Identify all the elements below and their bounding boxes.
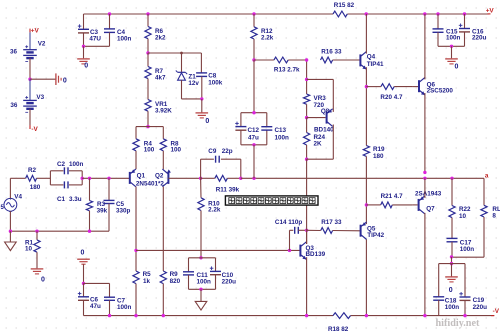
wire C10/C11 box top: [189, 257, 216, 259]
svg-text:0: 0: [84, 63, 88, 70]
svg-text:R9: R9: [170, 271, 179, 278]
svg-text:47u: 47u: [248, 135, 259, 142]
wire V3 top lead: [29, 79, 31, 100]
capacitor C15 100n: [433, 29, 461, 42]
wire R8 to Q2 emitter: [162, 151, 164, 169]
transistor Q7 2SA1943: [412, 191, 441, 214]
node feedback / Q2 base: [199, 177, 202, 180]
wire V2 bottom lead: [29, 58, 31, 79]
node junction top rail / C16: [463, 12, 466, 15]
svg-text:330p: 330p: [116, 207, 131, 214]
svg-text:TIP42: TIP42: [367, 232, 384, 239]
svg-text:R16 33: R16 33: [321, 48, 342, 55]
svg-text:100n: 100n: [117, 304, 132, 311]
wire C7 bottom lead: [109, 300, 111, 315]
wire R3 top lead: [89, 178, 91, 200]
wire R4 top lead: [135, 127, 137, 139]
wire C15 top lead: [437, 14, 439, 29]
resistor R6 2k2: [145, 27, 166, 42]
svg-text:0: 0: [449, 287, 453, 294]
node C10/C11 bottom: [199, 288, 202, 291]
wire ground stem C6C7: [83, 264, 85, 283]
wire C11 bottom lead: [188, 275, 190, 289]
wire R8 top lead: [162, 127, 164, 139]
wire Q6 emitter: [424, 93, 426, 172]
transistor Q6 2SC5200: [413, 77, 453, 95]
capacitor C17 100n: [447, 238, 475, 252]
wire C14 drop: [289, 230, 291, 250]
wire C5 top lead: [108, 178, 110, 200]
resistor R1 10: [25, 239, 40, 252]
wire Vbe bottom to VAS: [306, 159, 308, 244]
svg-text:36: 36: [10, 48, 18, 55]
capacitor C18 100n: [433, 297, 459, 311]
svg-text:100n: 100n: [445, 304, 460, 311]
wire C10 top lead: [215, 258, 217, 272]
svg-text:100n: 100n: [197, 278, 212, 285]
svg-text:220u: 220u: [473, 304, 488, 311]
wire bootstrap to output rail: [253, 145, 255, 179]
capacitor C16 220u: [459, 24, 487, 42]
wire C11 top lead: [188, 258, 190, 272]
node -V C7: [108, 314, 111, 317]
resistor R4 100: [133, 139, 155, 154]
capacitor C9 22p: [201, 148, 241, 178]
svg-text:2k2: 2k2: [155, 34, 166, 41]
wire Q3 collector riser: [306, 230, 308, 244]
wire Q2 collector: [162, 187, 164, 271]
wire -V rail left of R18: [84, 315, 334, 317]
node R3 bottom: [88, 230, 91, 233]
node C15/C16 ground: [450, 45, 453, 48]
svg-text:R5: R5: [143, 271, 152, 278]
svg-text:Q4: Q4: [367, 54, 376, 61]
wire C8 top lead: [200, 53, 202, 73]
node zener top: [180, 52, 183, 55]
wire VAS rail: [136, 249, 300, 251]
node Q8 base: [305, 116, 308, 119]
node R22 tap: [450, 177, 453, 180]
resistor R22 10: [449, 206, 471, 220]
resistor VR3 720: [304, 94, 327, 109]
wire C10/C11 box bottom: [189, 288, 216, 290]
svg-text:R15 82: R15 82: [334, 2, 355, 9]
wire Vbe string: [306, 60, 308, 94]
svg-text:Q1: Q1: [137, 173, 146, 180]
transistor Q2 2N5401: [136, 169, 171, 187]
svg-text:C9: C9: [208, 148, 217, 155]
wire VR1 bottom lead: [147, 111, 149, 126]
wire C18/C19 box top: [439, 263, 465, 265]
wire V3 bottom lead: [29, 109, 31, 126]
svg-text:180: 180: [30, 184, 41, 191]
svg-text:2SC5200: 2SC5200: [427, 88, 454, 95]
node input network output: [81, 177, 84, 180]
node R11/C9 right: [239, 177, 242, 180]
resistor R15: [333, 2, 355, 17]
wire C4 top lead: [109, 14, 111, 29]
wire Q7 emitter: [424, 178, 426, 198]
svg-text:R17 33: R17 33: [321, 219, 342, 226]
svg-text:+V: +V: [31, 28, 40, 35]
capacitor C3 47u: [78, 24, 102, 42]
resistor R5 1k: [133, 271, 151, 285]
wire R1 top lead: [36, 231, 38, 240]
wire C3/C4 bottom join: [84, 45, 110, 47]
node junction top rail / Q4 collector: [365, 12, 368, 15]
node bootstrap bottom: [252, 143, 255, 146]
svg-text:180: 180: [373, 153, 384, 160]
wire V4 up to input: [9, 178, 11, 198]
node junction top rail / R6: [146, 12, 149, 15]
node output upper: [423, 171, 426, 174]
svg-text:0: 0: [455, 63, 459, 70]
ground 0 under C3/C4: [77, 59, 90, 70]
resistor R13 2.7k: [254, 57, 307, 73]
wire C12/C13 riser: [253, 60, 255, 113]
node Q1 collector / VAS rail: [134, 249, 137, 252]
node R10 bottom: [199, 256, 202, 259]
svg-text:47u: 47u: [90, 303, 101, 310]
svg-text:220u: 220u: [222, 278, 237, 285]
wire C18 top lead: [438, 264, 440, 297]
node -V Q7 collector: [423, 314, 426, 317]
svg-text:8: 8: [492, 212, 496, 219]
wire R5 bottom lead: [135, 284, 137, 316]
wire Vbe box bottom: [307, 158, 334, 160]
wire tail rail: [136, 126, 163, 128]
watermark hifidiy.net: [436, 318, 480, 329]
svg-text:a: a: [485, 172, 489, 179]
node C14 tap: [288, 249, 291, 252]
wire V4 to ground triangle: [9, 231, 11, 242]
power port +V (right): [486, 8, 495, 15]
zener Z1 12v: [176, 71, 200, 88]
wire C19 top lead: [464, 264, 466, 297]
svg-text:C14 110p: C14 110p: [275, 219, 302, 226]
wire C6/C7 box top: [84, 282, 110, 284]
transistor Q1 2N5401: [130, 169, 146, 187]
node R13/R16 junction: [305, 58, 308, 61]
svg-text:22p: 22p: [222, 148, 233, 155]
svg-text:4k7: 4k7: [155, 74, 166, 81]
wire R6 top lead: [147, 14, 149, 27]
wire VR3 to base node: [306, 104, 308, 117]
wire +V top rail right of R15: [347, 13, 489, 15]
wire ground spur: [30, 78, 56, 80]
node battery midpoint: [28, 78, 31, 81]
svg-text:-V: -V: [31, 126, 38, 133]
wire ground stem C3C4: [83, 46, 85, 58]
ground 0 under R1: [31, 269, 45, 284]
node Vbe bottom: [305, 158, 308, 161]
svg-text:Q2: Q2: [155, 173, 164, 180]
wire C6 bottom lead: [83, 300, 85, 315]
capacitor C8 100k: [196, 73, 223, 87]
node zener ground junction: [200, 97, 203, 100]
resistor R16 33: [321, 48, 360, 63]
svg-text:R21 4.7: R21 4.7: [381, 193, 404, 200]
svg-text:10: 10: [459, 213, 467, 220]
svg-text:0: 0: [63, 77, 67, 84]
svg-text:220u: 220u: [472, 35, 487, 42]
wire C15/C16 bottom join: [438, 45, 465, 47]
node output: [423, 177, 426, 180]
ground 0 beside battery: [56, 73, 67, 85]
resistor R20 4.7: [366, 84, 413, 101]
capacitor C1 3.3u parallel box bottom: [50, 171, 82, 203]
svg-text:2.2k: 2.2k: [261, 35, 274, 42]
wire V2 top lead: [29, 32, 31, 49]
wire R6 to zener/C8: [148, 52, 201, 54]
wire output rail: [241, 177, 484, 179]
svg-text:2K: 2K: [314, 140, 323, 147]
svg-text:12v: 12v: [188, 80, 199, 87]
transistor Q8 BD140: [307, 108, 334, 134]
resistor R24 2K: [304, 133, 326, 148]
svg-text:V3: V3: [36, 94, 44, 101]
transistor Q3 BD139: [300, 242, 325, 260]
svg-text:100n: 100n: [117, 36, 132, 43]
svg-text:V4: V4: [14, 193, 22, 200]
node C3 bottom junction: [82, 45, 85, 48]
wire R24 top lead: [306, 118, 308, 133]
node junction top rail / C4: [108, 12, 111, 15]
ground triangle under V4: [5, 242, 17, 251]
node R6/R7/zener junction: [146, 51, 149, 54]
ground 0 under zener: [196, 113, 210, 125]
port a label: [485, 172, 489, 179]
node R12/R13 junction: [252, 58, 255, 61]
node Q5 emitter / R21: [365, 203, 368, 206]
node junction top rail / Q6 collector: [423, 12, 426, 15]
wire RL bottom lead: [483, 217, 485, 257]
node bootstrap bottom tap: [252, 177, 255, 180]
power port -V (battery stack): [30, 125, 39, 133]
wire C7 top lead: [109, 283, 111, 297]
resistor R8 100: [160, 139, 181, 154]
wire Q3 emitter: [306, 257, 308, 315]
wire C5 bottom lead: [108, 204, 110, 232]
resistor VR1 3.92K: [145, 100, 172, 115]
svg-text:C1: C1: [57, 196, 66, 203]
wire R7-VR1 link: [147, 79, 149, 100]
wire Q7 collector: [424, 213, 426, 316]
ground 0 under C15/C16: [445, 59, 458, 71]
svg-text:R20 4.7: R20 4.7: [380, 94, 403, 101]
svg-text:C13: C13: [275, 127, 287, 134]
node junction top rail / R12: [252, 12, 255, 15]
wire Z1/C8 bottom join: [182, 98, 202, 100]
capacitor C5 330p: [104, 200, 131, 214]
ground triangle under C10/C11: [195, 301, 207, 310]
wire input to R2: [10, 177, 25, 179]
svg-text:100n: 100n: [275, 135, 290, 142]
svg-text:C2: C2: [57, 161, 66, 168]
wire C3 top lead: [83, 14, 85, 29]
wire R7 top lead: [147, 53, 149, 67]
svg-text:3.3u: 3.3u: [69, 196, 82, 203]
battery V2 36V: [10, 41, 46, 62]
resistor R12 2.2k: [251, 27, 274, 42]
node -V R9: [162, 314, 165, 317]
capacitor C12 47u box: [235, 113, 267, 145]
capacitor C2 100n parallel box top: [50, 161, 83, 185]
wire ground stem output: [451, 264, 453, 277]
wire C18 bottom lead: [438, 300, 440, 315]
svg-text:47U: 47U: [89, 36, 101, 43]
wire C16 top lead: [464, 14, 466, 29]
wire R10 bottom lead: [200, 211, 202, 258]
wire Vbe box top: [307, 78, 334, 80]
node -V R5: [134, 314, 137, 317]
wire Q6 collector: [424, 14, 426, 79]
wire R2 to C1/C2: [37, 177, 51, 179]
wire -V rail right of R18: [351, 315, 495, 317]
node bootstrap top: [252, 111, 255, 114]
svg-text:V2: V2: [38, 41, 46, 48]
wire Q5 collector: [365, 240, 367, 316]
svg-text:R13 2.7k: R13 2.7k: [274, 66, 300, 73]
transistor Q4 TIP41: [360, 52, 384, 70]
battery V3 36V: [10, 94, 44, 113]
tooltip overlay (hold left button to select capture region): [225, 196, 318, 205]
node diff pair tail: [146, 125, 149, 128]
svg-text:100: 100: [171, 147, 182, 154]
resistor R11 39k: [201, 175, 241, 193]
ground 0 above C6/C7: [77, 249, 90, 264]
svg-text:0: 0: [81, 249, 85, 256]
svg-text:100n: 100n: [69, 161, 84, 168]
wire R24 bottom lead: [306, 145, 308, 159]
svg-text:820: 820: [170, 278, 181, 285]
transistor Q5 TIP42: [361, 222, 385, 240]
capacitor C19 220u: [459, 292, 487, 311]
wire input ground rail: [10, 230, 109, 232]
wire Q2 base to feedback: [168, 177, 200, 179]
wire Q4 emitter chain: [365, 67, 367, 145]
wire +V top rail left of R15: [84, 13, 334, 15]
svg-text:R18 82: R18 82: [328, 326, 349, 333]
node -V Q3 emitter: [305, 314, 308, 317]
wire ground stem C15C16: [451, 46, 453, 58]
svg-text:100k: 100k: [208, 79, 223, 86]
wire R4 to Q1 emitter: [135, 151, 137, 169]
svg-text:TIP41: TIP41: [367, 61, 384, 68]
resistor R9 820: [160, 271, 180, 285]
node Q4 emitter / R20: [365, 85, 368, 88]
wire R9 bottom lead: [162, 284, 164, 316]
svg-text:100: 100: [144, 147, 155, 154]
capacitor C4 100n: [104, 29, 132, 43]
svg-text:39k: 39k: [97, 207, 108, 214]
svg-text:Q8: Q8: [321, 108, 330, 115]
svg-text:0: 0: [205, 118, 209, 125]
capacitor C6 47u: [78, 292, 101, 310]
node R3 tap: [88, 177, 91, 180]
wire C8 bottom lead: [201, 76, 203, 99]
wire R1 bottom lead: [36, 252, 38, 268]
node -V Q5 collector: [365, 314, 368, 317]
svg-text:0: 0: [41, 277, 45, 284]
wire to C18/C19 box: [451, 257, 453, 264]
wire Q4 collector: [365, 14, 367, 54]
resistor R18 82: [328, 313, 351, 333]
wire ground triangle stem: [200, 289, 202, 301]
svg-text:BD139: BD139: [306, 251, 326, 258]
wire V4 bottom lead: [9, 211, 11, 231]
wire R22 top lead: [451, 178, 453, 205]
node V4 low: [9, 230, 12, 233]
wire C3 bottom lead: [83, 33, 85, 46]
wire C17 bottom lead: [451, 242, 453, 257]
wire Vbe box right: [332, 79, 334, 112]
capacitor C13 100n box: [241, 113, 289, 145]
svg-text:2SA1943: 2SA1943: [415, 191, 442, 198]
wire output rail drop: [483, 178, 485, 205]
svg-text:Q7: Q7: [426, 206, 435, 213]
svg-text:2N5401*2: 2N5401*2: [136, 180, 165, 187]
svg-text:2.2k: 2.2k: [208, 207, 221, 214]
source V4 sine: [1, 193, 23, 211]
svg-text:C12: C12: [248, 127, 260, 134]
wire R3 bottom lead: [89, 211, 91, 231]
node C6/C7 top: [82, 282, 85, 285]
wire C6 top lead: [83, 283, 85, 296]
node C5 tap: [107, 177, 110, 180]
power port -V (right): [491, 308, 500, 315]
wire Q1 collector: [135, 187, 137, 271]
resistor R2 180: [26, 167, 41, 191]
wire R19 to Q5: [365, 156, 367, 224]
svg-text:10: 10: [25, 246, 33, 253]
wire R10 top lead: [200, 178, 202, 198]
svg-text:3.92K: 3.92K: [155, 108, 172, 115]
svg-text:100n: 100n: [460, 246, 475, 253]
wire Q8 collector drop: [332, 125, 334, 160]
svg-text:R2: R2: [28, 167, 37, 174]
node zobel/RL ground: [450, 255, 453, 258]
wire ground stem Z1C8: [201, 99, 203, 113]
resistor R21 4.7: [366, 193, 412, 208]
resistor R17 33: [307, 219, 361, 233]
capacitor C7 100n: [104, 297, 132, 311]
node Vbe top corner: [305, 78, 308, 81]
capacitor C10 220u: [210, 266, 236, 285]
resistor R19 180: [363, 146, 385, 160]
capacitor C11 100n: [183, 272, 211, 286]
wire R12 top lead: [253, 14, 255, 27]
resistor RL 8: [481, 205, 500, 219]
node C18/C19 top: [450, 262, 453, 265]
node R1 top: [35, 230, 38, 233]
resistor R7 4k7: [145, 67, 166, 82]
node junction top rail / C15: [436, 12, 439, 15]
svg-text:BD140: BD140: [314, 127, 334, 134]
wire R12 bottom lead: [253, 39, 255, 60]
wire C19 bottom lead: [464, 300, 466, 315]
wire Z1 top lead: [181, 53, 183, 72]
svg-text:hifidiy.net: hifidiy.net: [436, 318, 480, 329]
resistor R3 39k: [86, 201, 107, 215]
svg-text:1k: 1k: [143, 278, 151, 285]
svg-text:R11 39k: R11 39k: [216, 187, 240, 194]
wire C4 bottom lead: [109, 32, 111, 46]
wire R22 to C17: [451, 218, 453, 239]
capacitor C14 110p: [275, 219, 307, 234]
node Q3 collector: [305, 229, 308, 232]
ground 0 output: [445, 277, 458, 294]
